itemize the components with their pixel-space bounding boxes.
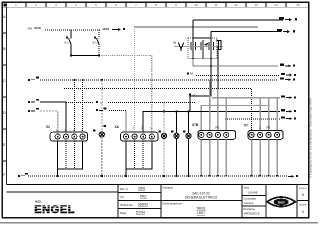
wire switch drop Q2 x99 dotted: [98, 30, 100, 55]
wire bus W1 y30 dotted: [45, 29, 100, 31]
wire drop X2 pin4 dotted x81: [82, 80, 84, 132]
pin number labels above strips: [56, 125, 270, 132]
svg-text:Ordine No.: Ordine No.: [120, 203, 134, 207]
wire horizontal y55.6 gray: [71, 55, 99, 57]
svg-text:SCHEMA ELETTRICO: SCHEMA ELETTRICO: [185, 196, 218, 200]
svg-text:06/694: 06/694: [138, 203, 148, 207]
contactor contact bar 2: [201, 40, 203, 59]
right fields rows: [242, 196, 266, 207]
label Q1: [65, 36, 70, 44]
earth junction circle x102: [99, 132, 104, 137]
node arrow right y111.6: [281, 109, 296, 113]
svg-text:BUS: BUS: [35, 26, 41, 30]
node arrow right y118.8: [281, 116, 296, 120]
junction x73 y80: [74, 79, 76, 81]
junction x99 y55.6: [98, 55, 100, 57]
wire drop XA pin1 dotted x125.5: [109, 111, 126, 133]
wires below X7B gray: [200, 139, 202, 176]
border frame left ruler line: [5, 7, 7, 184]
node arrow right y31.5: [277, 29, 295, 33]
node arrow right y97.5 gray: [281, 95, 296, 99]
wire dotted y89 to x252: [218, 89, 252, 131]
svg-text:Controllato: Controllato: [244, 197, 257, 201]
wire gray below circle: [101, 137, 103, 176]
switch Q2 blade: [97, 38, 100, 44]
wire feeder L1 y19.8: [193, 19, 283, 21]
terminal strip X7B: [192, 123, 236, 139]
svg-text:X2: X2: [46, 125, 50, 129]
earth circle x188.5: [186, 133, 191, 138]
wires below XA loop: [126, 141, 152, 169]
wires below X2 loop: [58, 141, 83, 169]
terminal strip XA: [115, 125, 159, 141]
drop XA to PE bus: [125, 169, 127, 176]
svg-text:10: 10: [194, 3, 198, 7]
node arrow right PE: [288, 175, 298, 178]
svg-text:-W01: -W01: [102, 27, 109, 31]
label left of circle: [93, 130, 95, 132]
svg-text:Data: Data: [120, 211, 126, 215]
wire drop X2 pin3 dotted x73: [73, 80, 75, 132]
junction dot x188: [188, 111, 190, 113]
title block v-line x242: [241, 185, 243, 218]
junction x71 y55.6: [70, 55, 72, 57]
ruler ticks top: [26, 3, 286, 8]
junction dot x176: [176, 111, 178, 113]
wire bus y80 dotted: [40, 79, 278, 81]
node label left y80: [28, 77, 39, 81]
wire gray y97.5: [212, 97, 280, 99]
wire drop x176.5 with earth circle: [176, 112, 178, 176]
label on XA pin1 feeder: [96, 108, 107, 112]
terminal strip X2: [46, 125, 88, 141]
svg-text:X7B: X7B: [192, 123, 199, 127]
svg-text:Inel: Inel: [278, 200, 285, 205]
label 96: [187, 72, 194, 76]
wire drop x164 gray dotted with earth circle: [163, 103, 165, 176]
wire dotted y102.5: [66, 102, 196, 104]
node label left PE: [18, 173, 28, 177]
earth circle x176.5: [174, 133, 179, 138]
node arrow right y75.3: [281, 73, 296, 77]
wire bus y88.6 dotted: [64, 88, 218, 90]
title block v-line x161: [160, 185, 162, 218]
svg-text:© Copyright by IN.EL. snc Via: © Copyright by IN.EL. snc Via Bandinot -…: [309, 98, 313, 178]
svg-text:Revisione: Revisione: [244, 207, 256, 211]
svg-text:Ctr.: Ctr.: [120, 195, 125, 199]
PE bus y172.6 dotted: [28, 175, 287, 177]
svg-text:11: 11: [214, 3, 217, 7]
svg-text:13: 13: [254, 3, 258, 7]
label inline y102.5: [96, 100, 104, 104]
contactor linkage line y47 gray: [174, 46, 223, 48]
svg-text:XA: XA: [115, 125, 120, 129]
label arrow small inside: [204, 43, 209, 46]
svg-text:PE: PE: [267, 126, 271, 130]
svg-text:Dis. N: Dis. N: [120, 187, 128, 191]
wire gray drop x102 to circle: [101, 80, 103, 132]
svg-text:PE: PE: [216, 126, 220, 130]
junction feet of gray drops on PE bus: [200, 175, 278, 177]
label near x199 y95: [189, 93, 195, 97]
overload bracket right: [217, 41, 222, 50]
junction dots PE bus: [57, 175, 59, 177]
wire gray y111 left to X2 pin1: [40, 111, 58, 132]
earth circle x164: [161, 133, 166, 138]
logo company: [34, 200, 76, 217]
ruler digits top: [15, 3, 300, 7]
ruler ticks left: [3, 33, 7, 161]
svg-text:X7: X7: [244, 123, 248, 127]
contactor top bar y38: [193, 37, 211, 39]
svg-text:LM07: LM07: [197, 211, 205, 215]
svg-text:-W1: -W1: [27, 27, 33, 31]
title block top line: [6, 184, 308, 186]
svg-text:F: F: [3, 173, 5, 177]
terminal strip X7: [244, 123, 283, 139]
wire gray drops X7B: [209, 80, 211, 131]
svg-text:Visto: Visto: [244, 186, 250, 190]
fields column rows: [118, 193, 161, 209]
svg-text:Denominazione: Denominazione: [163, 202, 183, 206]
node label left y111: [28, 108, 39, 112]
svg-text:4: 4: [302, 210, 304, 214]
svg-text:15: 15: [296, 3, 300, 7]
wire box path x218 down: [217, 59, 219, 89]
title block v-line x266: [265, 185, 267, 218]
wire dotted y118.8 to right arrow: [225, 118, 280, 120]
junction dot x164: [163, 111, 165, 113]
gray enclosure left edge x134: [134, 27, 136, 132]
svg-text:PRC: PRC: [140, 195, 147, 199]
contactor contact bar 1: [191, 38, 196, 59]
wire black bus y111.6: [143, 111, 281, 113]
svg-text:IN.EL: IN.EL: [35, 200, 42, 204]
label right of line above circle: [103, 125, 106, 127]
svg-text:FOGLIO: FOGLIO: [299, 188, 307, 190]
wire dotted y66 from contactor: [193, 59, 278, 67]
title block inner line left: [6, 191, 118, 193]
divider y200.5: [161, 200, 242, 202]
node arrow right y19.8: [279, 17, 297, 21]
svg-text:Lamiere: Lamiere: [244, 201, 254, 205]
node arrow right of W1: [102, 27, 125, 31]
label Q2: [93, 36, 98, 44]
svg-text:Impianto: Impianto: [163, 186, 174, 190]
junction x102 y80: [101, 79, 103, 81]
wires below X7 gray: [251, 139, 253, 176]
corner mark: [3, 3, 6, 6]
svg-text:6-1: 6-1: [65, 41, 70, 45]
wire drops X7: [259, 98, 261, 131]
svg-text:PRONGES E.: PRONGES E.: [244, 212, 260, 216]
svg-text:ILGANE: ILGANE: [248, 191, 258, 195]
wire jog black x210 down: [190, 59, 211, 112]
operator V symbol: [178, 43, 183, 52]
wire feeder drop x193: [192, 20, 194, 38]
svg-text:6-1: 6-1: [93, 41, 98, 45]
contactor right pin x218: [217, 47, 219, 59]
wire black y102 left to X2: [40, 102, 66, 132]
junction x81 y80: [82, 79, 84, 81]
foglio cells: [297, 200, 309, 202]
node arrow right y66: [280, 64, 295, 68]
wire gray y105.5: [201, 106, 268, 131]
svg-text:14: 14: [274, 3, 278, 7]
wire feeder y31.5: [211, 31, 281, 33]
gray enclosure top edge y27: [134, 26, 258, 28]
svg-text:96: 96: [190, 72, 194, 76]
border frame top ruler line: [3, 6, 309, 8]
ruler letters left: [3, 15, 6, 177]
svg-text:12: 12: [234, 3, 238, 7]
svg-text:5: 5: [302, 193, 304, 197]
title block v-line x118: [117, 185, 119, 218]
wire drop x188.5 with earth circle: [188, 112, 190, 176]
contactor K1 dashed box: [188, 38, 217, 59]
wire switch drop Q1 x71: [70, 30, 72, 55]
title block v-line x297: [296, 185, 298, 218]
svg-text:TAV01: TAV01: [196, 207, 205, 211]
scan shadow line bottom: [0, 222, 318, 224]
wire corner x141 to XA pin3: [142, 112, 144, 133]
switch Q1 blade: [69, 38, 72, 44]
node label left y102: [28, 99, 39, 103]
labels at earth circles: [159, 131, 186, 133]
wire y75.3 with label 95-96: [196, 74, 280, 76]
svg-text:N: N: [174, 41, 176, 45]
drop X2 to PE bus: [57, 169, 59, 176]
svg-text:SEGUE: SEGUE: [299, 205, 307, 207]
contactor contact bar 3: [209, 38, 214, 59]
node arrow right y80: [280, 77, 295, 81]
wire feeder drop x211: [210, 32, 212, 39]
svg-text:2000: 2000: [138, 187, 145, 191]
eye logo: [267, 197, 296, 207]
label -W1 BUS left: [27, 26, 41, 31]
svg-text:5/7/94: 5/7/94: [136, 211, 145, 215]
